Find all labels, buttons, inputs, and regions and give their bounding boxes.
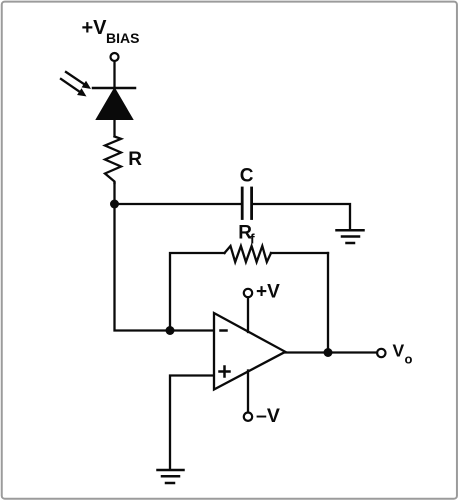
capacitor C <box>242 188 251 219</box>
-V pin <box>247 371 249 413</box>
svg-text:R: R <box>128 149 142 170</box>
svg-text:–V: –V <box>256 405 280 427</box>
wire <box>113 61 115 88</box>
terminal +VBIAS <box>111 53 119 61</box>
svg-text:o: o <box>405 352 413 367</box>
node A (R / C / inverting branch) <box>110 200 119 209</box>
svg-text:f: f <box>250 231 255 247</box>
svg-text:BIAS: BIAS <box>106 30 139 46</box>
label Rf <box>238 223 255 247</box>
wire <box>115 204 214 331</box>
ground (right) <box>337 230 364 243</box>
photodiode D1 <box>61 72 135 119</box>
label Vo <box>393 341 413 367</box>
wire (feedback left) <box>170 253 225 331</box>
wire <box>253 204 350 229</box>
node C (output junction) <box>324 348 333 357</box>
svg-text:+V: +V <box>256 282 280 303</box>
wire (output) <box>285 351 377 353</box>
resistor R <box>105 137 121 184</box>
label +V_BIAS <box>82 17 140 46</box>
+V pin <box>244 289 252 297</box>
wire <box>113 183 115 204</box>
op-amp U1 <box>214 313 285 390</box>
terminal Vo <box>377 349 385 357</box>
wire <box>113 119 115 136</box>
wire <box>271 252 328 254</box>
resistor Rf <box>225 246 272 262</box>
svg-text:V: V <box>393 341 405 361</box>
node B (inverting input junction) <box>166 326 175 335</box>
wire <box>115 203 241 205</box>
wire (+ input) <box>170 376 213 470</box>
svg-text:C: C <box>240 166 254 187</box>
svg-text:+V: +V <box>82 17 108 39</box>
ground (bottom left) <box>158 470 184 483</box>
wire (feedback right) <box>327 253 329 353</box>
